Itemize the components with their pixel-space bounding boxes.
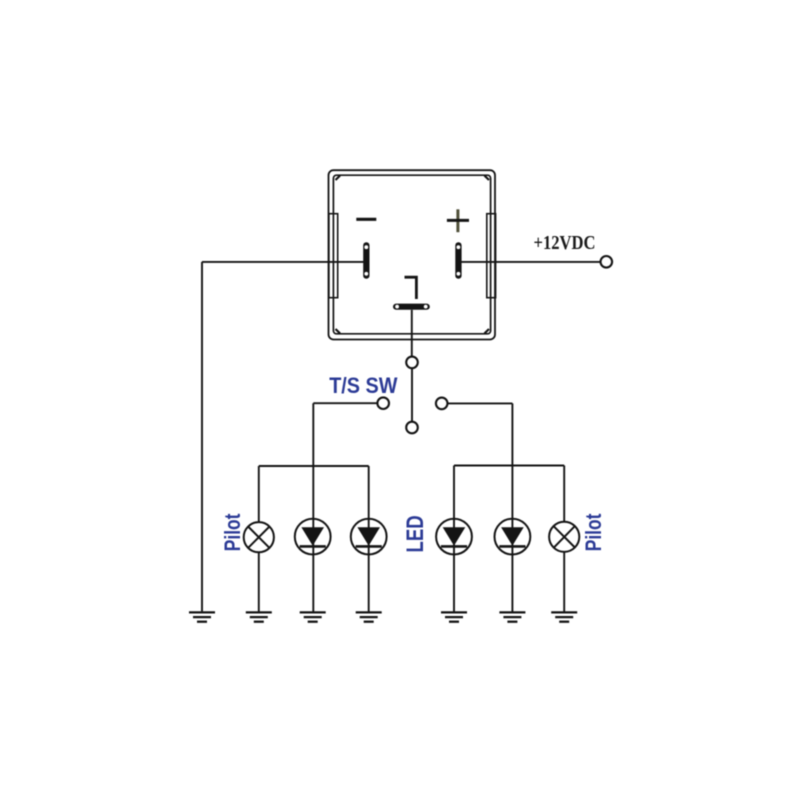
svg-text:LED: LED [402,515,429,552]
svg-text:Pilot: Pilot [220,513,245,551]
svg-text:Pilot: Pilot [581,513,606,551]
svg-text:T/S SW: T/S SW [329,373,398,398]
svg-text:+12VDC: +12VDC [534,232,596,254]
